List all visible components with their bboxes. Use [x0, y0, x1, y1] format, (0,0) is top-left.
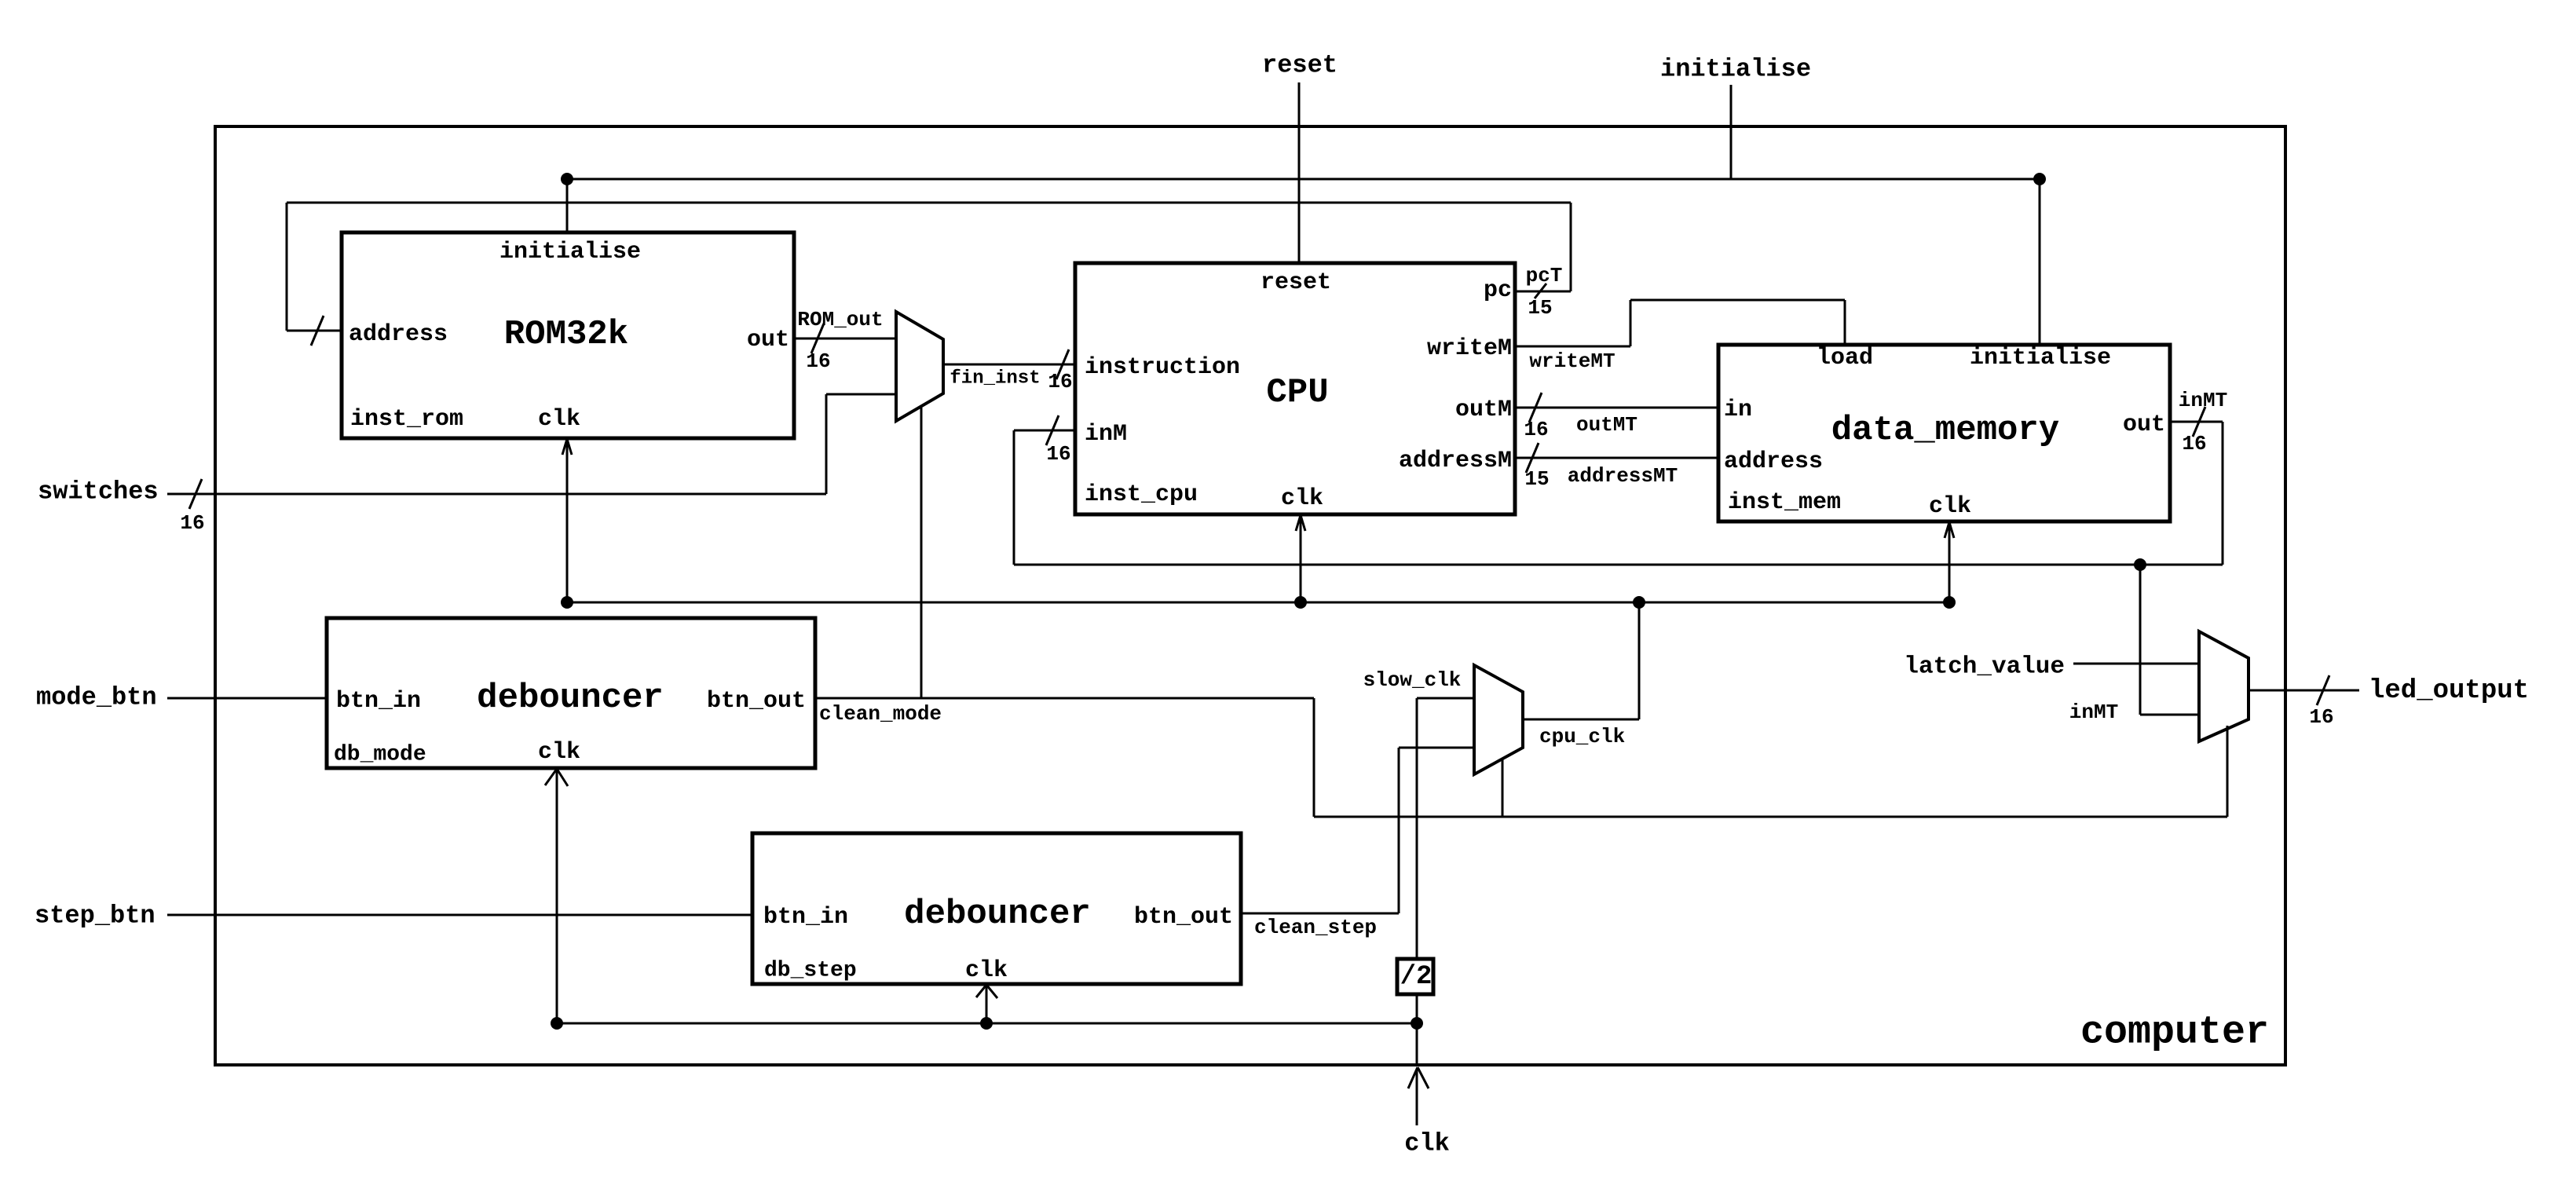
svg-text:16: 16	[2309, 705, 2333, 729]
svg-text:clean_step: clean_step	[1254, 916, 1377, 939]
wire latch_value into mux M3	[2073, 663, 2199, 665]
block CPU	[1075, 263, 1515, 514]
wire switches riser to mux M1	[825, 394, 828, 494]
svg-text:computer: computer	[2080, 1011, 2269, 1055]
svg-text:inMT: inMT	[2069, 701, 2118, 724]
wire inMT branch drop	[2139, 565, 2142, 715]
bus slash on led_output wire	[2317, 675, 2329, 705]
bus slash on fin_inst wire	[1056, 349, 1069, 379]
svg-text:in: in	[1724, 397, 1752, 423]
svg-text:reset: reset	[1261, 269, 1331, 296]
svg-text:address: address	[349, 321, 448, 348]
svg-text:address: address	[1724, 448, 1823, 475]
wire mode_btn into debouncer U1	[167, 697, 327, 700]
wire address into ROM32k	[287, 330, 342, 332]
wire inMT riser to CPU inM	[1013, 430, 1015, 565]
wire debouncer U2 clk riser	[986, 986, 988, 1023]
svg-text:15: 15	[1524, 467, 1549, 491]
bus slash on switches wire	[189, 479, 202, 509]
svg-text:inMT: inMT	[2179, 389, 2227, 412]
wire inMT into mux M3	[2140, 714, 2199, 716]
wire CPU clk riser	[1300, 516, 1302, 602]
svg-text:clk: clk	[1281, 485, 1323, 512]
svg-text:clk: clk	[538, 739, 580, 766]
wire inM into CPU	[1014, 430, 1075, 432]
bus slash on outM wire	[1529, 393, 1542, 423]
wire clean_mode from debouncer U1 btn_out	[815, 697, 1314, 700]
svg-text:initialise: initialise	[1660, 55, 1811, 84]
svg-text:/2: /2	[1400, 962, 1433, 992]
junction CPU clk	[1294, 596, 1307, 609]
svg-text:clk: clk	[965, 957, 1008, 984]
svg-text:instruction: instruction	[1085, 354, 1240, 381]
wire cpu_clk riser	[1638, 602, 1641, 719]
svg-text:16: 16	[806, 349, 830, 373]
svg-text:inst_cpu: inst_cpu	[1085, 481, 1198, 508]
svg-text:inst_rom: inst_rom	[350, 406, 463, 433]
svg-text:16: 16	[1046, 442, 1070, 466]
wire slow_clk from divider /2	[1416, 698, 1418, 959]
wire clk distribution bus (bottom)	[557, 1023, 1417, 1025]
junction initialise/ROM	[561, 173, 573, 185]
wire pc return horizontal (pcT net)	[287, 202, 1571, 204]
wire clean_mode horizontal to mux selects	[1314, 816, 2227, 818]
wire fin_inst (mux M1 out to CPU instruction)	[943, 364, 1075, 366]
bus slash on data_memory out wire	[2193, 407, 2205, 437]
block data_memory	[1718, 345, 2170, 521]
svg-text:step_btn: step_btn	[35, 902, 156, 931]
svg-text:slow_clk: slow_clk	[1363, 668, 1462, 692]
svg-text:initialise: initialise	[1970, 345, 2111, 371]
svg-text:cpu_clk: cpu_clk	[1539, 725, 1625, 748]
junction inMT branch	[2134, 558, 2146, 571]
svg-text:switches: switches	[38, 477, 159, 507]
wire led_output from mux M3	[2249, 690, 2359, 692]
svg-text:16: 16	[180, 511, 204, 535]
wire outM to data_memory in	[1515, 407, 1718, 409]
svg-text:writeM: writeM	[1427, 335, 1512, 362]
junction cpu_clk on clock bus	[1633, 596, 1645, 609]
bus slash on addressM wire	[1526, 443, 1539, 473]
wire initialise drop to data_memory	[2039, 179, 2041, 345]
wire clk entry inside computer	[1416, 1023, 1418, 1065]
wire pc output of CPU	[1515, 291, 1571, 293]
wire clk external stem	[1416, 1070, 1418, 1125]
svg-text:ROM32k: ROM32k	[504, 315, 628, 354]
svg-text:initialise: initialise	[499, 239, 641, 265]
wire clean_mode drop	[1313, 698, 1315, 817]
svg-text:addressM: addressM	[1399, 448, 1512, 474]
wire clean_step from debouncer U2 btn_out	[1241, 913, 1399, 915]
wire switches horizontal	[167, 493, 826, 496]
arrowhead debouncer U2 clk	[976, 985, 997, 998]
svg-text:inst_mem: inst_mem	[1728, 489, 1841, 516]
junction clock bus right end / data_memory clk	[1943, 596, 1956, 609]
svg-text:data_memory: data_memory	[1831, 411, 2059, 450]
wire cpu_clk distribution bus	[567, 602, 1949, 604]
wire inMT return horizontal	[1014, 564, 2223, 566]
svg-text:outMT: outMT	[1576, 413, 1637, 437]
wire writeM out of CPU	[1515, 346, 1630, 348]
wire debouncer U1 clk riser	[556, 770, 558, 1023]
svg-text:reset: reset	[1262, 51, 1337, 80]
svg-text:writeMT: writeMT	[1529, 349, 1615, 373]
svg-text:16: 16	[2182, 432, 2206, 455]
wire mux M2 select	[1502, 759, 1504, 817]
wire step_btn into debouncer U2	[167, 914, 752, 916]
svg-text:16: 16	[1048, 370, 1072, 393]
junction clk bus right end / divider	[1411, 1017, 1423, 1030]
svg-text:pcT: pcT	[1526, 264, 1563, 287]
svg-text:CPU: CPU	[1266, 373, 1328, 412]
svg-text:15: 15	[1528, 296, 1552, 320]
wire cpu_clk from mux M2	[1523, 719, 1639, 721]
svg-text:debouncer: debouncer	[477, 679, 664, 718]
wire clean_step riser	[1398, 748, 1400, 913]
svg-text:16: 16	[1524, 418, 1548, 441]
bus slash on inM wire	[1046, 415, 1059, 445]
svg-text:btn_in: btn_in	[336, 688, 421, 715]
junction clk bus left end / debouncer U1	[551, 1017, 563, 1030]
svg-text:load: load	[1817, 345, 1873, 371]
wire ROM clk riser	[566, 440, 569, 602]
wire writeM riser	[1630, 300, 1632, 346]
block debouncer U1 (mode)	[327, 618, 815, 768]
svg-text:out: out	[2123, 412, 2165, 438]
wire initialise vertical	[1730, 85, 1733, 179]
wire mux M3 select	[2227, 726, 2229, 817]
wire switches into mux M1	[826, 393, 896, 396]
wire initialise bus horizontal	[567, 178, 2040, 181]
block debouncer U2 (step)	[752, 833, 1241, 984]
junction initialise/data_memory	[2033, 173, 2046, 185]
svg-text:clean_mode: clean_mode	[819, 702, 942, 726]
wire pc riser	[1570, 203, 1572, 291]
wire writeM horizontal to load	[1630, 299, 1845, 302]
wire pc return left drop	[286, 203, 288, 331]
arrowhead clk external	[1408, 1067, 1429, 1088]
svg-text:btn_out: btn_out	[707, 688, 806, 715]
block ROM32k	[342, 232, 794, 438]
wire data_memory clk riser	[1948, 523, 1951, 602]
wire ROM_out to mux M1	[794, 338, 896, 340]
junction clk bus / debouncer U2	[980, 1017, 993, 1030]
svg-text:db_step: db_step	[764, 959, 857, 983]
wire mux M1 select from clean_mode	[920, 408, 923, 698]
svg-text:debouncer: debouncer	[904, 894, 1091, 934]
svg-text:clk: clk	[1404, 1129, 1450, 1158]
svg-text:db_mode: db_mode	[334, 743, 426, 767]
svg-text:inM: inM	[1085, 421, 1127, 448]
svg-text:out: out	[747, 327, 789, 353]
svg-text:led_output: led_output	[2369, 676, 2529, 706]
wire reset vertical into CPU	[1298, 82, 1301, 263]
svg-text:mode_btn: mode_btn	[36, 683, 157, 712]
wire slow_clk into mux M2	[1417, 697, 1474, 700]
wire divider /2 input stem	[1416, 994, 1418, 1023]
block /2 (clock divider)	[1397, 959, 1433, 994]
wire addressM to data_memory address	[1515, 457, 1718, 459]
svg-text:pc: pc	[1484, 277, 1512, 304]
svg-text:btn_out: btn_out	[1134, 904, 1233, 931]
svg-text:btn_in: btn_in	[763, 904, 848, 931]
svg-text:clk: clk	[538, 406, 580, 433]
arrowhead data_memory clk	[1945, 522, 1954, 538]
svg-text:addressMT: addressMT	[1568, 464, 1678, 488]
arrowhead ROM clk	[562, 439, 572, 455]
svg-text:fin_inst: fin_inst	[950, 368, 1040, 390]
bus slash on pc wire	[1535, 284, 1546, 298]
mux M3 (led output select)	[2199, 631, 2249, 741]
wire initialise drop to ROM32k	[566, 179, 569, 232]
wire inMT drop	[2222, 422, 2224, 565]
wire data_memory out	[2170, 421, 2223, 423]
wire load drop into data_memory	[1844, 300, 1846, 345]
junction clock bus left end / ROM clk	[561, 596, 573, 609]
arrowhead debouncer U1 clk	[545, 769, 568, 786]
svg-text:outM: outM	[1455, 397, 1512, 423]
bus slash on address wire	[311, 316, 324, 346]
wire clean_step into mux M2	[1399, 747, 1474, 749]
arrowhead CPU clk	[1296, 515, 1305, 531]
svg-text:latch_value: latch_value	[1904, 653, 2065, 681]
svg-text:clk: clk	[1929, 493, 1971, 520]
mux M1 (instruction select)	[896, 312, 943, 421]
mux M2 (clock select)	[1474, 665, 1523, 774]
svg-text:ROM_out: ROM_out	[797, 308, 883, 331]
bus slash on ROM_out wire	[811, 324, 824, 353]
outer block: computer	[215, 126, 2285, 1065]
